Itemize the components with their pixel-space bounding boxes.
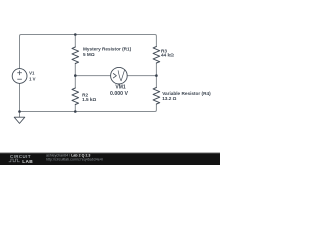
svg-text:1 V: 1 V [29, 77, 36, 82]
svg-text:44 kΩ: 44 kΩ [161, 53, 174, 58]
svg-text:VM1: VM1 [115, 85, 126, 91]
svg-text:http://circuitlab.com/c7eq46ab: http://circuitlab.com/c7eq46ab34e4r [46, 158, 104, 162]
svg-text:0.000 V: 0.000 V [110, 91, 128, 97]
svg-text:CIRCUIT: CIRCUIT [10, 154, 31, 159]
svg-text:1.5 kΩ: 1.5 kΩ [82, 97, 96, 102]
svg-text:Mystery Resistor (R1): Mystery Resistor (R1) [83, 47, 132, 52]
svg-text:LAB: LAB [22, 159, 33, 165]
svg-text:13.2 Ω: 13.2 Ω [162, 96, 176, 101]
svg-text:5 MΩ: 5 MΩ [83, 52, 95, 57]
svg-text:V1: V1 [29, 71, 35, 76]
